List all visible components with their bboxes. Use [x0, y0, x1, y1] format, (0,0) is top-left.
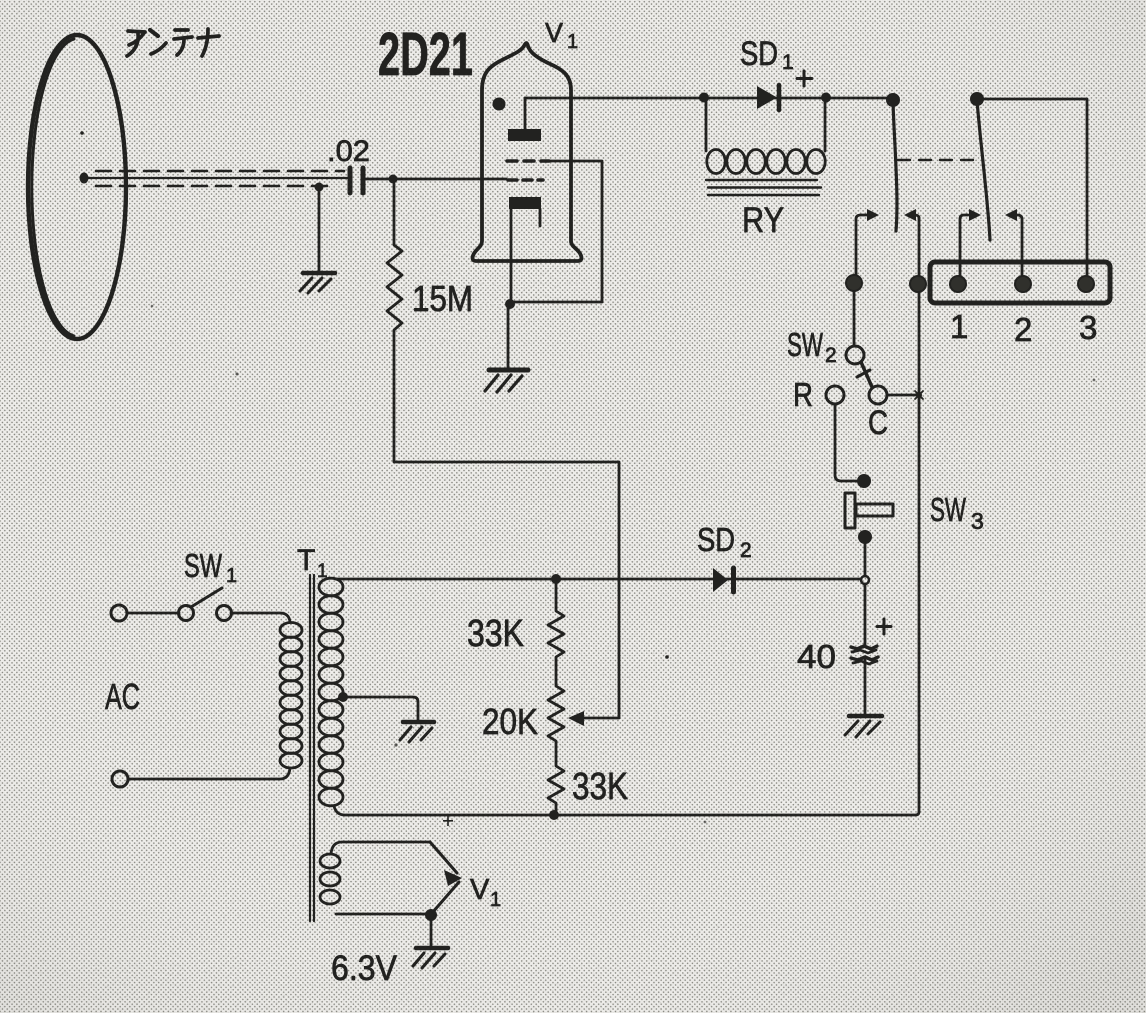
- svg-text:20K: 20K: [482, 701, 538, 742]
- svg-text:SD: SD: [740, 35, 778, 73]
- svg-text:2: 2: [1014, 311, 1032, 348]
- svg-text:1: 1: [317, 561, 328, 582]
- svg-text:40: 40: [797, 638, 836, 675]
- svg-text:C: C: [868, 404, 888, 442]
- svg-text:1: 1: [567, 31, 578, 53]
- svg-text:SW: SW: [184, 547, 223, 584]
- svg-text:2: 2: [740, 539, 752, 562]
- svg-text:SD: SD: [697, 521, 735, 558]
- svg-text:T: T: [297, 544, 315, 577]
- svg-text:1: 1: [782, 51, 794, 74]
- svg-text:3: 3: [971, 508, 984, 534]
- svg-text:SW: SW: [787, 326, 824, 363]
- svg-text:1: 1: [490, 889, 501, 911]
- svg-text:2D21: 2D21: [378, 20, 473, 88]
- svg-text:1: 1: [226, 565, 237, 587]
- svg-text:.02: .02: [327, 135, 370, 168]
- svg-text:15M: 15M: [412, 278, 473, 319]
- svg-text:3: 3: [1079, 309, 1097, 346]
- svg-text:AC: AC: [105, 676, 140, 717]
- svg-text:2: 2: [825, 344, 837, 367]
- svg-text:33K: 33K: [572, 766, 628, 808]
- svg-text:6.3V: 6.3V: [331, 949, 398, 988]
- svg-text:SW: SW: [930, 491, 967, 528]
- svg-text:1: 1: [950, 308, 968, 345]
- svg-text:RY: RY: [742, 201, 784, 240]
- svg-text:V: V: [470, 874, 490, 906]
- svg-text:V: V: [545, 17, 563, 48]
- svg-text:R: R: [793, 376, 813, 413]
- svg-text:33K: 33K: [467, 613, 524, 655]
